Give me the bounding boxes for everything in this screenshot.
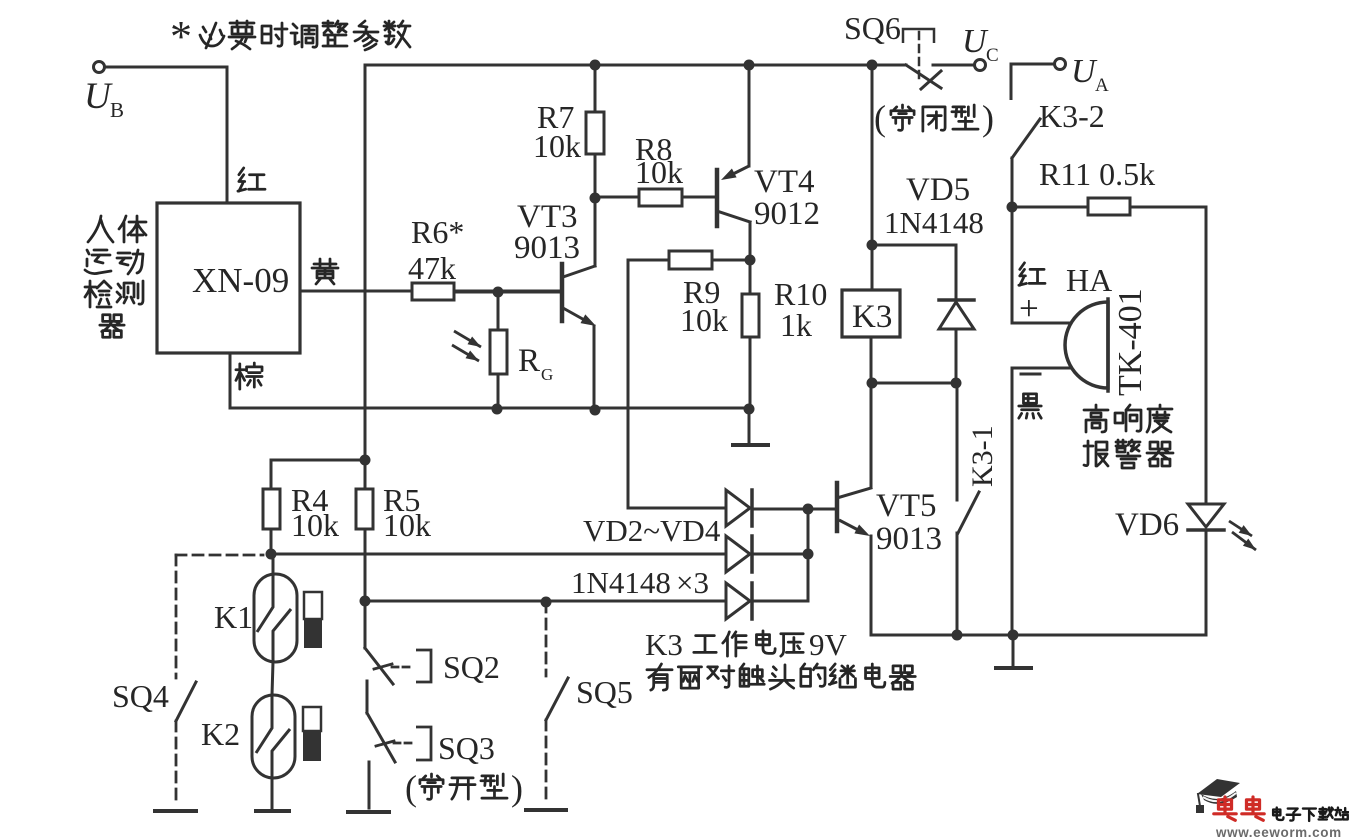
svg-text:SQ2: SQ2 — [443, 649, 500, 685]
node VT4/R9/R10 junction — [745, 255, 756, 266]
svg-text:K3: K3 — [852, 299, 892, 335]
svg-text:9V: 9V — [809, 627, 848, 662]
svg-text:C: C — [986, 45, 999, 66]
svg-text:×3: ×3 — [676, 565, 709, 600]
wire top supply rail — [365, 64, 906, 67]
label hong (red) — [238, 168, 265, 191]
svg-text:U: U — [1071, 53, 1098, 90]
svg-text:1N4148: 1N4148 — [571, 565, 671, 600]
resistor R4 10k — [263, 489, 280, 529]
svg-text:R: R — [518, 343, 540, 379]
svg-text:B: B — [110, 98, 124, 122]
K2 indicator — [303, 707, 321, 731]
svg-text:G: G — [541, 365, 553, 384]
wire SQ6 fixed contact — [933, 64, 975, 67]
node diode2 junction — [803, 549, 814, 560]
switch SQ6 blade — [906, 65, 941, 88]
wire XN-09 brown lead — [230, 353, 750, 408]
svg-text:SQ3: SQ3 — [438, 730, 495, 766]
photoresistor R_G — [490, 330, 507, 374]
node R4 top branch — [360, 455, 371, 466]
diode VD4 1N4148 — [726, 583, 750, 619]
wire bottom right rail — [871, 634, 1206, 637]
svg-text:VT5: VT5 — [876, 488, 937, 524]
switch SQ2 — [365, 648, 393, 684]
wire R7 top lead — [594, 65, 597, 112]
note relay with two contact pairs — [647, 664, 672, 690]
svg-text:+: + — [1019, 289, 1039, 328]
node brown rail / VT3 emitter — [590, 405, 601, 416]
wire R7 bottom lead — [594, 154, 597, 198]
resistor R9 10k — [669, 251, 712, 269]
wire R10 bottom lead — [749, 337, 752, 409]
node SQ5 branch — [541, 597, 552, 608]
transistor VT4 — [715, 170, 720, 226]
svg-text:VT4: VT4 — [754, 164, 815, 200]
label ren ti yun dong jian ce qi (human motion detector) — [88, 216, 113, 242]
svg-text:R11 0.5k: R11 0.5k — [1039, 156, 1155, 192]
switch SQ6 pushbutton actuator — [903, 29, 934, 43]
label huang (yellow) — [312, 259, 338, 284]
label zong (brown) — [236, 363, 262, 389]
svg-text:K3-2: K3-2 — [1039, 98, 1105, 134]
svg-text:K2: K2 — [201, 716, 240, 752]
node U_C terminal — [975, 60, 986, 71]
wire R_G bottom lead — [497, 374, 500, 409]
relay K3 — [842, 290, 900, 337]
node U_B terminal — [94, 62, 105, 73]
switch SQ5 — [545, 602, 548, 676]
logo dianzi xiazaizhan — [1273, 808, 1283, 820]
svg-text:U: U — [962, 23, 989, 60]
mercury switch K2 — [252, 695, 295, 778]
logo chongchong red characters — [1214, 797, 1236, 820]
wire speaker plus lead — [1012, 207, 1071, 323]
wire R11 left lead — [1012, 206, 1088, 209]
label hong + (red) right — [1019, 263, 1045, 285]
ground right — [1012, 635, 1015, 668]
wire right vertical bus to VD6 — [1205, 207, 1208, 504]
node junction R7/R8/VT3 — [590, 193, 601, 204]
wire U_A lead — [1011, 64, 1054, 100]
node rail/R7 — [590, 60, 601, 71]
svg-text:47k: 47k — [408, 250, 456, 286]
wire diode row2 out — [753, 553, 808, 556]
wire VT4 emitter to rail — [748, 65, 751, 166]
resistor R6 47k — [412, 283, 454, 300]
node diode1/VT5 base — [803, 504, 814, 515]
label hei (black) right — [1019, 394, 1041, 418]
ground SQ3 — [348, 810, 389, 814]
wire K3 top branch — [871, 65, 874, 290]
svg-text:9013: 9013 — [876, 521, 942, 557]
svg-text:XN-09: XN-09 — [192, 261, 289, 300]
svg-text:VD5: VD5 — [906, 172, 970, 208]
wire SQ3 to ground — [368, 762, 371, 808]
transistor VT5 — [835, 483, 840, 531]
LED VD6 — [1188, 504, 1224, 527]
ground SQ5 — [526, 808, 566, 812]
switch SQ4 — [176, 554, 263, 557]
node rail/VT4 — [744, 60, 755, 71]
svg-text:TK-401: TK-401 — [1112, 288, 1149, 396]
svg-text:(: ( — [874, 98, 886, 138]
wire R8 left lead — [595, 196, 639, 199]
node U_A terminal — [1055, 59, 1066, 70]
wire K2 to ground — [271, 778, 274, 810]
module XN-09 human body motion detector — [157, 203, 300, 353]
speaker HA TK-401 — [1065, 302, 1108, 388]
svg-text:9012: 9012 — [754, 196, 820, 232]
svg-text:1N4148: 1N4148 — [884, 205, 984, 240]
wire SQ2-SQ3 — [366, 681, 369, 713]
node rail/speaker-minus — [1008, 630, 1019, 641]
label minus — [1021, 373, 1040, 376]
resistor R8 10k — [639, 189, 682, 206]
wire K3-1 bottom lead — [956, 533, 959, 635]
switch SQ3 — [367, 713, 395, 762]
switch K3-1 blade — [958, 492, 979, 533]
svg-text:SQ5: SQ5 — [576, 674, 633, 710]
wire R11 right lead — [1130, 206, 1206, 209]
node rail/K3-1 — [952, 630, 963, 641]
wire VD6 to bottom rail — [1205, 530, 1208, 635]
wire R_G top lead — [497, 292, 500, 330]
node K1 chain top — [266, 549, 277, 560]
mercury switch K1 — [254, 574, 297, 662]
resistor R10 1k — [742, 294, 759, 337]
wire R10 top lead — [749, 260, 752, 294]
svg-text:10k: 10k — [533, 128, 581, 164]
svg-text:U: U — [84, 76, 113, 117]
wire K3-2 to R11 junction — [1011, 158, 1014, 207]
node K3/VD5 top junction — [867, 240, 878, 251]
wire K3-1 top lead — [956, 383, 959, 500]
wire VT4 collector down — [749, 222, 752, 260]
logo graduation cap — [1197, 779, 1240, 797]
ground SQ4 — [155, 809, 196, 813]
wire VD5 top lead — [872, 245, 956, 300]
diode VD5 1N4148 — [939, 298, 974, 302]
wire R6 left lead from XN-09 yellow — [300, 290, 412, 293]
svg-text:SQ6: SQ6 — [844, 10, 901, 46]
svg-text:10k: 10k — [635, 154, 683, 190]
wire R8 right lead to VT4 base — [682, 196, 715, 199]
ground center — [748, 409, 751, 444]
svg-text:(: ( — [405, 768, 417, 808]
svg-text:10k: 10k — [291, 507, 339, 543]
wire K3 bottom / VT5 collector — [870, 337, 873, 487]
svg-text:SQ4: SQ4 — [112, 678, 169, 714]
svg-text:VD6: VD6 — [1115, 507, 1179, 543]
wire speaker minus lead — [1012, 368, 1072, 635]
K1 indicator — [304, 592, 322, 619]
svg-text:10k: 10k — [383, 507, 431, 543]
wire diode bus vertical — [807, 509, 810, 601]
diode VD2 1N4148 — [726, 490, 750, 526]
node brown rail / R_G — [492, 404, 503, 415]
wire R9 right lead — [712, 259, 750, 262]
wire VD5 bottom lead — [955, 329, 958, 383]
label gao xiang du bao jing qi (loud alarm) — [1084, 405, 1108, 432]
node VD5 bottom junction — [951, 378, 962, 389]
transistor VT3 — [560, 264, 565, 321]
node K3 bottom junction — [867, 378, 878, 389]
node brown rail / R10 / ground — [744, 404, 755, 415]
svg-text:R6*: R6* — [411, 214, 464, 250]
wire K1-K2 — [272, 662, 273, 695]
node rail/SQ6/K3 branch — [867, 60, 878, 71]
diode VD3 1N4148 — [726, 536, 750, 572]
svg-text:10k: 10k — [680, 302, 728, 338]
svg-text:K1: K1 — [214, 599, 253, 635]
switch K3-2 blade — [1012, 119, 1040, 158]
wire diode row2 — [271, 553, 726, 556]
svg-text:VD2~VD4: VD2~VD4 — [583, 513, 721, 548]
resistor R11 0.5k — [1088, 198, 1130, 215]
wire diode row3 — [365, 600, 726, 603]
wire R4 branch — [271, 460, 365, 489]
wire U_B to XN-09 red lead — [105, 67, 227, 203]
svg-text:*: * — [170, 12, 192, 61]
ground K1K2 — [256, 809, 289, 813]
switch SQ6 cross stroke — [921, 71, 941, 89]
svg-text:K3: K3 — [645, 627, 683, 662]
svg-text:1k: 1k — [780, 307, 812, 343]
resistor R7 10k — [586, 112, 604, 154]
resistor R5 10k — [356, 489, 373, 529]
svg-text:): ) — [982, 98, 994, 138]
node row3 / R5 bottom — [360, 596, 371, 607]
svg-text:HA: HA — [1066, 262, 1112, 298]
wire K3/VD5 bottom link — [872, 382, 957, 385]
wire R4 bottom lead — [270, 529, 273, 554]
svg-text:K3-1: K3-1 — [966, 425, 999, 487]
wire VT5 base lead — [753, 508, 835, 511]
wire R9 left leg down to diode row1 — [628, 260, 726, 508]
wire R9 left lead — [628, 259, 669, 262]
svg-text:9013: 9013 — [514, 230, 580, 266]
svg-text:): ) — [511, 768, 523, 808]
wire diode row3 out — [753, 600, 808, 603]
node junction K3-2/R11/speaker — [1007, 202, 1018, 213]
wire main left vertical bus x=365 — [364, 65, 367, 648]
wire R6 right lead — [454, 290, 560, 293]
svg-text:A: A — [1095, 75, 1109, 96]
svg-text:www.eeworm.com: www.eeworm.com — [1215, 825, 1342, 837]
node VT3 base / R_G top — [493, 287, 504, 298]
